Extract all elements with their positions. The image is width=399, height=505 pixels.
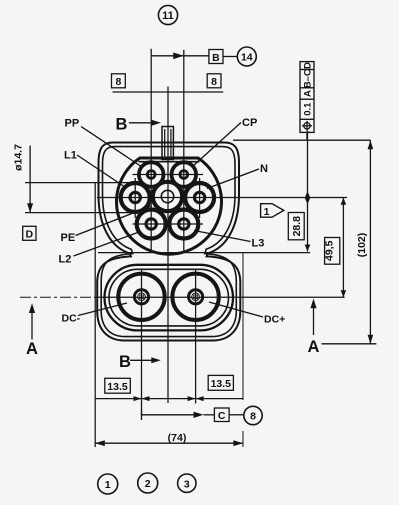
svg-text:N: N (260, 163, 268, 175)
svg-text:(102): (102) (356, 233, 368, 258)
svg-text:(74): (74) (168, 432, 187, 444)
label L2 with leader (59, 232, 141, 266)
crosshair row middle pins (long reference line) (97, 197, 347, 199)
extension line left for 74 (94, 183, 96, 447)
pin PE (centre) (153, 182, 182, 211)
pin PP (139, 162, 164, 187)
svg-text:L2: L2 (59, 254, 72, 266)
svg-text:49,5: 49,5 (324, 240, 336, 261)
extension line right for 74 (242, 253, 244, 447)
connector shell outer outline (97, 143, 240, 341)
type2 face outline (flat-top circle) (117, 158, 222, 254)
leader from frame to extension line (306, 132, 308, 140)
DC+ contact (172, 274, 218, 320)
balloon 11 top (158, 5, 177, 24)
label L3 with leader (194, 231, 264, 250)
waist reference line (28.8 lower datum) (98, 252, 310, 254)
svg-text:13.5: 13.5 (211, 378, 232, 390)
section label B with arrow (upper left) (116, 116, 162, 134)
svg-text:13.5: 13.5 (107, 381, 128, 393)
svg-text:A: A (303, 90, 314, 97)
svg-text:1: 1 (264, 206, 270, 218)
dimension o14.7 (left) (13, 144, 140, 213)
svg-text:B: B (212, 52, 220, 64)
svg-text:2: 2 (145, 478, 151, 490)
datum target box 8 (left) (112, 74, 126, 88)
svg-text:PP: PP (65, 118, 80, 130)
vertical construction line through CP/L3 column (183, 56, 185, 253)
box C (214, 408, 229, 422)
dimension line to box C and balloon 8 (142, 410, 245, 420)
svg-text:0.1: 0.1 (303, 102, 314, 116)
svg-text:D: D (26, 229, 34, 241)
svg-text:3: 3 (184, 478, 190, 490)
svg-text:L1: L1 (64, 150, 77, 162)
vertical construction line through DC+ (195, 269, 197, 404)
svg-text:A: A (26, 340, 38, 358)
svg-text:DC+: DC+ (264, 314, 285, 326)
boxed dimension 13.5 left (105, 378, 131, 393)
section arrow A left (26, 303, 38, 358)
horizontal reference line under boxes 8 (113, 91, 224, 93)
pin L2 (137, 210, 166, 239)
svg-text:B: B (119, 353, 131, 371)
label PE with leader (61, 206, 152, 244)
DC row centre line (A-A) (20, 296, 97, 298)
pin N (185, 183, 214, 212)
boxed dimension 13.5 right (208, 375, 233, 390)
pin CP (172, 162, 197, 187)
position symbol (304, 123, 310, 129)
crosshair row bottom pins (133, 223, 204, 225)
extension line top right (102 datum) (233, 139, 370, 141)
label N with leader (207, 163, 268, 189)
section label B with arrow (bottom) (119, 353, 161, 371)
balloon 14 (237, 47, 256, 66)
DC recess stadium outer (105, 265, 234, 331)
vertical construction centre line (167, 87, 169, 404)
svg-text:B–C: B–C (303, 69, 314, 88)
DC- contact (118, 274, 164, 320)
dimension 28.8 (rotated, boxed) (288, 131, 310, 252)
GD&T feature control frame (rotated) (300, 62, 314, 141)
vertical construction line through DC- (141, 269, 143, 417)
svg-text:CP: CP (242, 117, 257, 129)
connector shell inner outline (101, 147, 236, 337)
balloon 8 (bottom) (244, 406, 262, 424)
dimension line for 13.5 pair (95, 396, 243, 401)
svg-text:11: 11 (162, 10, 174, 22)
svg-text:D: D (303, 62, 314, 69)
datum target box 8 (right) (207, 74, 221, 88)
svg-text:8: 8 (115, 76, 121, 88)
dimension 49.5 (rotated, boxed) (324, 198, 347, 297)
label L1 with leader (64, 150, 127, 189)
pin L1 (121, 183, 150, 212)
datum flag 1 (pentagon) (261, 204, 284, 218)
dimension (74) (95, 432, 243, 446)
svg-text:8: 8 (250, 411, 256, 423)
svg-text:8: 8 (211, 76, 217, 88)
svg-text:A: A (308, 338, 320, 356)
balloon 2 (bottom row) (138, 473, 158, 493)
datum box D (23, 226, 36, 240)
balloon 3 (bottom row) (178, 474, 196, 492)
DC recess stadium inner (109, 269, 229, 326)
label DC- with leader (62, 303, 128, 325)
crosshair row top pins (133, 174, 204, 176)
label CP with leader (193, 117, 258, 167)
balloon 1 (bottom row) (98, 474, 118, 494)
svg-text:B: B (116, 116, 128, 134)
svg-text:C: C (218, 410, 226, 422)
svg-text:PE: PE (61, 232, 76, 244)
svg-text:L3: L3 (252, 238, 265, 250)
svg-text:DC-: DC- (62, 313, 81, 325)
vertical construction line through PP/L2 column (150, 56, 152, 253)
latch tab on top (162, 127, 173, 160)
svg-text:28.8: 28.8 (291, 216, 303, 237)
svg-text:1: 1 (105, 479, 111, 491)
crosshair vertical L1 (134, 178, 136, 218)
pin L3 (169, 210, 198, 239)
section arrow A right (308, 299, 377, 357)
label DC+ with leader (209, 302, 285, 326)
svg-text:ø14.7: ø14.7 (13, 144, 25, 171)
label PP with leader (65, 118, 143, 168)
svg-text:14: 14 (241, 52, 253, 64)
box B (top) (209, 50, 223, 64)
crosshair vertical N (199, 178, 201, 218)
dimension line B (top) with arrow, box B and balloon 14 (151, 49, 237, 59)
dimension (102) rotated (356, 140, 373, 344)
face top inner chamfer line (139, 161, 200, 163)
